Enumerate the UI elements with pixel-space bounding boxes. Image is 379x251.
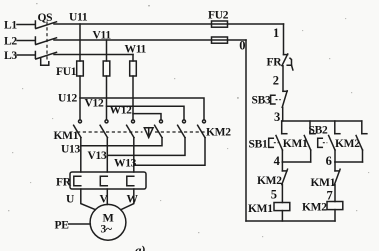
wire SB2 to node 6	[334, 150, 336, 162]
svg-text:SB2: SB2	[309, 125, 328, 137]
svg-text:KM1: KM1	[248, 203, 273, 215]
svg-text:V12: V12	[85, 98, 104, 110]
svg-text:0: 0	[239, 38, 245, 52]
wire W to motor	[121, 189, 134, 210]
wire L1 lead	[17, 24, 35, 26]
svg-text:FR: FR	[267, 57, 283, 69]
svg-text:3~: 3~	[101, 224, 112, 236]
svg-text:SB3: SB3	[252, 95, 271, 107]
interlock triangle	[144, 128, 153, 138]
wire U fuse to KM1	[79, 76, 81, 120]
interlock dashed link	[77, 131, 143, 133]
wire node 6	[335, 161, 363, 163]
wire FR to SB3	[282, 66, 284, 92]
wire L2 bus	[54, 39, 246, 41]
svg-text:M: M	[103, 211, 114, 225]
wire KM1 U bottom	[80, 138, 82, 172]
wire U11 drop	[79, 24, 81, 61]
motor M	[90, 204, 126, 240]
svg-text:W11: W11	[125, 44, 147, 56]
wire KM1 V bottom	[106, 138, 108, 172]
wire SB1 to node 4	[281, 150, 283, 162]
svg-text:PE: PE	[55, 220, 70, 232]
svg-text:FU2: FU2	[208, 10, 229, 22]
wire U12 branch	[80, 98, 204, 120]
svg-text:SB1: SB1	[249, 139, 268, 151]
wire KM1 aux to node 4	[310, 150, 312, 162]
wire V11 drop	[106, 40, 108, 61]
wire V to motor	[106, 189, 108, 205]
svg-text:KM2: KM2	[302, 202, 327, 214]
svg-text:U13: U13	[61, 144, 80, 156]
wire KM1 coil bottom	[281, 211, 283, 221]
svg-text:U: U	[66, 194, 75, 206]
wire KM2 coil bottom	[334, 210, 336, 221]
svg-text:3: 3	[274, 110, 280, 124]
svg-text:U11: U11	[69, 12, 88, 24]
wire KM2 aux to node 6	[362, 150, 364, 162]
wire KM1 W bottom	[133, 138, 135, 172]
svg-text:KM2: KM2	[257, 175, 282, 187]
wire KM1 NC to coil	[334, 185, 336, 202]
wire PE	[69, 223, 91, 225]
wire L1 bus	[54, 23, 284, 25]
svg-text:KM1: KM1	[54, 130, 79, 142]
wire line 0	[245, 40, 247, 221]
svg-text:U12: U12	[58, 93, 77, 105]
svg-text:6: 6	[326, 154, 332, 168]
svg-text:5: 5	[271, 188, 277, 202]
wire W11 drop	[132, 55, 134, 62]
svg-text:KM2: KM2	[335, 138, 360, 150]
svg-text:a): a)	[135, 243, 145, 251]
wire V fuse to KM1	[106, 76, 108, 120]
svg-text:KM1: KM1	[311, 177, 336, 189]
svg-text:L1: L1	[4, 20, 17, 32]
wire KM2 NC to coil	[281, 185, 283, 203]
wire V12 branch	[107, 106, 185, 119]
svg-text:7: 7	[327, 189, 333, 203]
wire L2 lead	[17, 40, 35, 42]
wire U13	[81, 138, 162, 146]
svg-text:4: 4	[274, 154, 281, 168]
svg-text:1: 1	[273, 26, 279, 40]
svg-text:L3: L3	[4, 50, 17, 62]
svg-text:V13: V13	[88, 150, 107, 162]
svg-text:W13: W13	[114, 158, 137, 170]
svg-text:KM2: KM2	[206, 127, 231, 139]
svg-text:2: 2	[273, 73, 279, 87]
wire line 1	[283, 24, 285, 55]
wire U to motor	[81, 189, 96, 210]
svg-text:L2: L2	[4, 36, 17, 48]
svg-text:W12: W12	[110, 105, 133, 117]
svg-text:V11: V11	[93, 30, 112, 42]
svg-text:QS: QS	[38, 12, 53, 24]
wire W12 branch	[133, 114, 161, 120]
wire node 3 rail	[282, 120, 362, 122]
wire W13	[134, 138, 205, 166]
svg-text:KM1: KM1	[283, 138, 308, 150]
wire L3 bus	[54, 54, 133, 56]
wire L3 lead	[17, 54, 35, 56]
wire W fuse to KM1	[132, 76, 134, 120]
svg-text:FU1: FU1	[56, 66, 77, 78]
wire node 4	[282, 161, 310, 163]
wire SB3 to node 3	[282, 107, 284, 121]
wire bottom rail	[246, 220, 335, 222]
wire V13	[107, 138, 185, 156]
